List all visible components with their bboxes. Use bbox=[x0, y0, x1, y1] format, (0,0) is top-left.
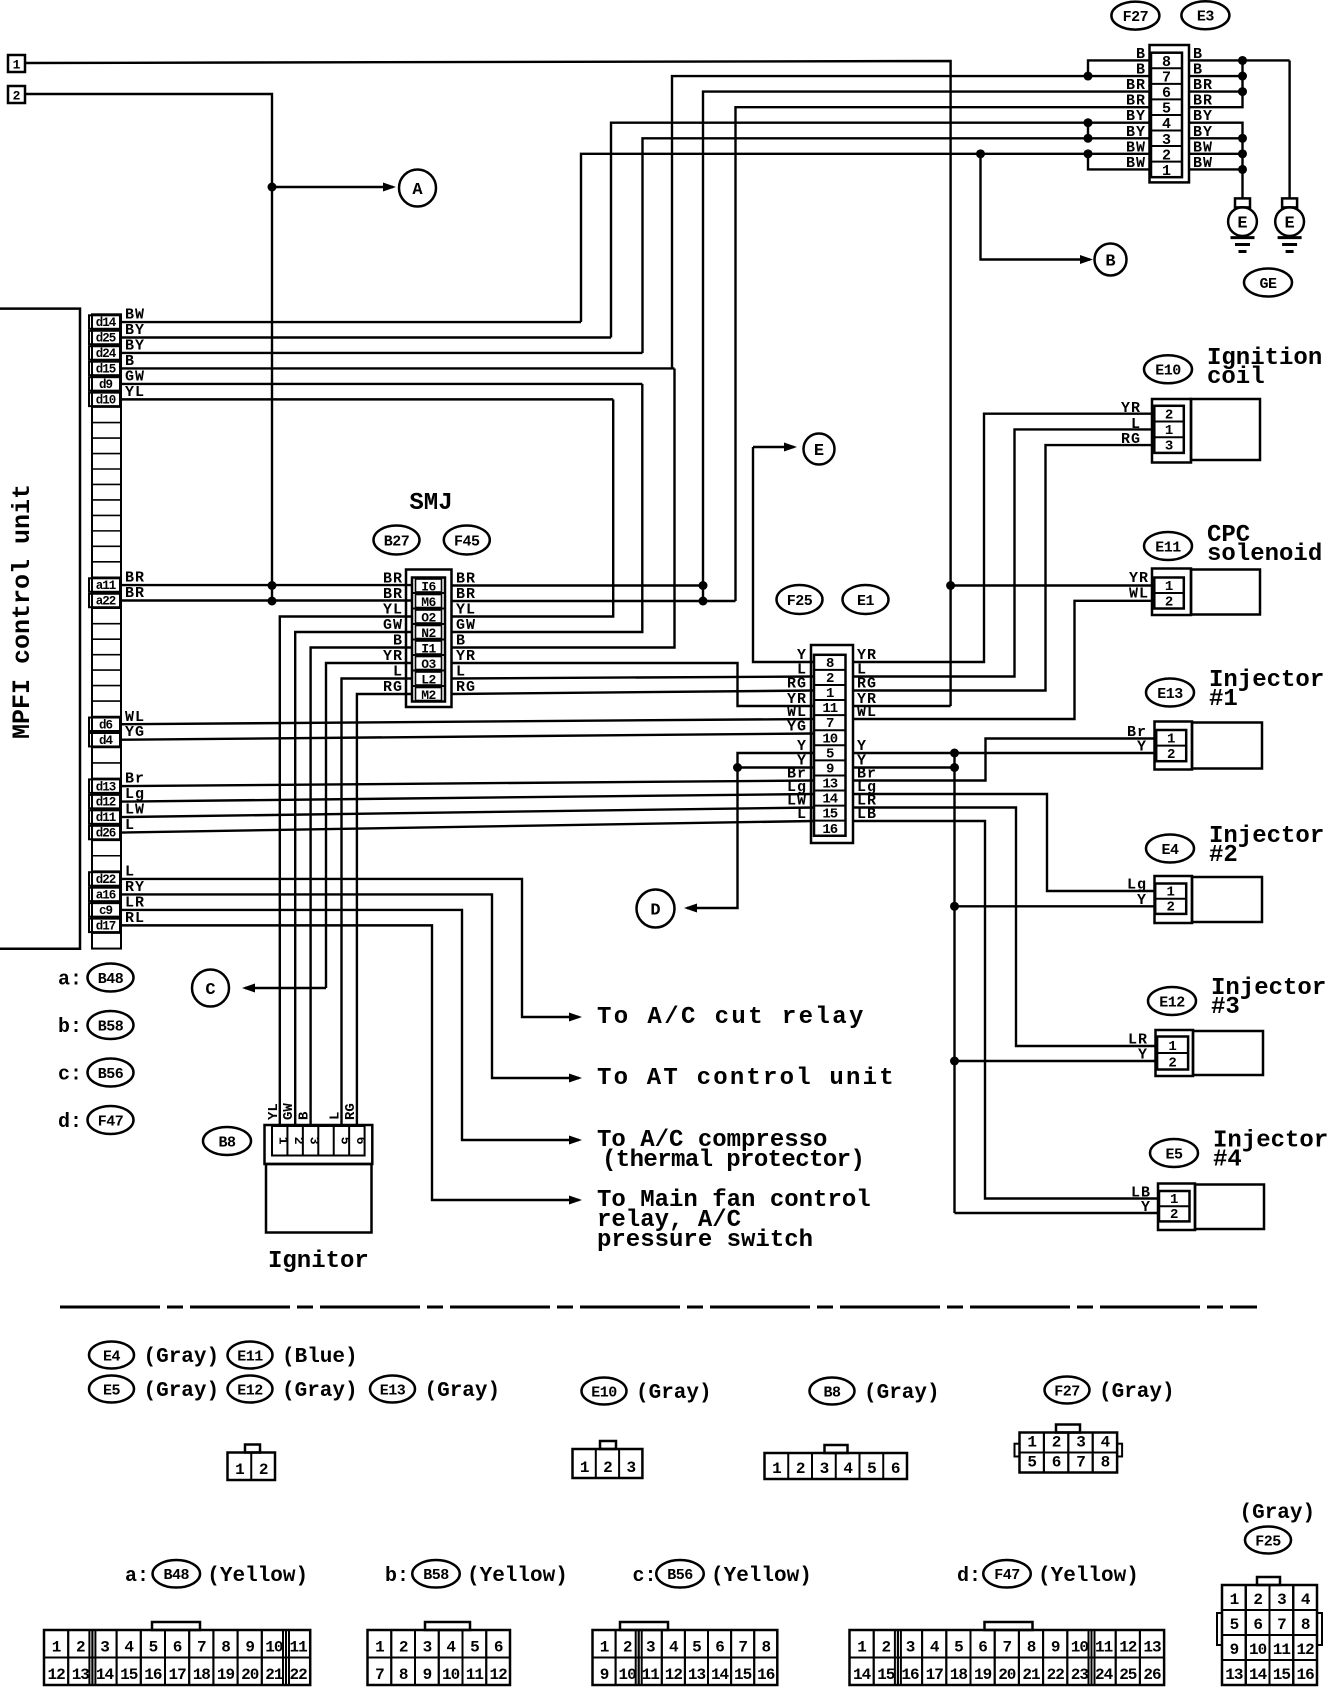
wire to ground E right bbox=[1288, 60, 1290, 198]
svg-text:3: 3 bbox=[100, 1639, 109, 1657]
wire d17 to Main fan control relay bbox=[121, 925, 579, 1200]
legend E13 Gray bbox=[370, 1376, 415, 1403]
svg-text:17: 17 bbox=[926, 1666, 944, 1684]
circle B58 bottom bbox=[412, 1560, 460, 1588]
circle GE bbox=[1244, 269, 1292, 297]
svg-text:d14: d14 bbox=[96, 316, 117, 330]
junction dot Y injector3 bbox=[950, 1057, 959, 1066]
svg-text:c9: c9 bbox=[99, 904, 113, 918]
svg-text:2: 2 bbox=[603, 1459, 612, 1477]
connector diagram 3-pin bbox=[600, 1441, 616, 1449]
wire GW SMJ to ignitor pin2 bbox=[295, 632, 412, 1126]
svg-text:(Gray): (Gray) bbox=[282, 1380, 358, 1403]
junction dot BY pin3 bbox=[1084, 134, 1093, 143]
wire YR SMJ right to E1 pin11 bbox=[452, 663, 815, 706]
svg-text:E: E bbox=[1237, 215, 1247, 234]
svg-text:(thermal protector): (thermal protector) bbox=[602, 1147, 864, 1174]
svg-text:8: 8 bbox=[399, 1666, 408, 1684]
svg-text:2: 2 bbox=[76, 1639, 85, 1657]
svg-text:2: 2 bbox=[1167, 747, 1175, 763]
svg-text:16: 16 bbox=[822, 822, 837, 838]
svg-text:3: 3 bbox=[906, 1639, 915, 1657]
junction dot BR a22 bbox=[699, 597, 708, 606]
connector F27/E3 outer shell bbox=[1150, 45, 1190, 182]
circle B56 bottom bbox=[656, 1560, 704, 1588]
svg-text:B56: B56 bbox=[98, 1066, 124, 1083]
node 1 box bbox=[8, 55, 25, 72]
wire 2 from node2 bbox=[25, 94, 272, 601]
junction dot B-arrow branch bbox=[976, 149, 985, 158]
svg-text:17: 17 bbox=[168, 1666, 186, 1684]
svg-text:15: 15 bbox=[734, 1666, 752, 1684]
svg-text:13: 13 bbox=[1143, 1639, 1161, 1657]
svg-text:c:: c: bbox=[58, 1064, 82, 1087]
svg-text:D: D bbox=[650, 902, 660, 921]
junction dot wire2 branch A bbox=[268, 183, 277, 192]
svg-text:5: 5 bbox=[867, 1460, 876, 1478]
svg-text:9: 9 bbox=[245, 1639, 254, 1657]
svg-text:15: 15 bbox=[1273, 1666, 1291, 1684]
wire Y to injector3 bbox=[955, 1060, 1158, 1062]
svg-text:12: 12 bbox=[1297, 1641, 1315, 1659]
wire L SMJ to ignitor pin5 bbox=[342, 679, 413, 1127]
svg-text:To A/C cut relay: To A/C cut relay bbox=[597, 1004, 866, 1031]
svg-text:10: 10 bbox=[265, 1639, 283, 1657]
wire a16 to AT control unit bbox=[121, 894, 579, 1078]
wire B d15 row bbox=[121, 367, 675, 369]
svg-text:a22: a22 bbox=[96, 595, 116, 609]
svg-text:B48: B48 bbox=[164, 1567, 190, 1584]
wire F27 pin8 B stub bbox=[1088, 60, 1151, 76]
junction dot right BW pin1 bbox=[1238, 165, 1247, 174]
svg-text:pressure switch: pressure switch bbox=[597, 1227, 813, 1254]
svg-text:d:: d: bbox=[957, 1565, 981, 1588]
circle B8 bbox=[203, 1127, 251, 1155]
circle E12 bbox=[1148, 987, 1196, 1015]
connector E13 pin box bbox=[1156, 730, 1186, 761]
svg-text:11: 11 bbox=[289, 1639, 307, 1657]
wire arrow to E bbox=[753, 446, 794, 448]
svg-text:4: 4 bbox=[1101, 1434, 1111, 1452]
wire d22 to A/C cut relay bbox=[121, 879, 579, 1017]
svg-text:9: 9 bbox=[1230, 1641, 1239, 1659]
svg-text:2: 2 bbox=[399, 1639, 408, 1657]
svg-text:3: 3 bbox=[307, 1137, 322, 1145]
svg-text:9: 9 bbox=[1051, 1639, 1060, 1657]
wire F27 pin3 BY right bbox=[1189, 137, 1243, 139]
svg-text:2: 2 bbox=[1253, 1591, 1262, 1609]
svg-text:5: 5 bbox=[1230, 1616, 1239, 1634]
wire 1 B+ from node1 bbox=[25, 61, 951, 586]
wire LW d11 to E1 pin15 bbox=[121, 808, 814, 818]
svg-text:F27: F27 bbox=[1054, 1383, 1080, 1400]
wire F27 pin2 BW right bbox=[1189, 153, 1243, 155]
wire F27 pin5 BR right up bbox=[1189, 60, 1243, 107]
connector diagram B56 16-pin bbox=[620, 1622, 668, 1630]
svg-text:14: 14 bbox=[1249, 1666, 1268, 1684]
svg-text:20: 20 bbox=[241, 1666, 259, 1684]
connector diagram 6-pin bbox=[825, 1445, 848, 1453]
circle E3 bbox=[1181, 1, 1229, 29]
svg-text:YL: YL bbox=[266, 1103, 282, 1120]
svg-text:2: 2 bbox=[881, 1639, 890, 1657]
junction dot BR a11 bbox=[699, 581, 708, 590]
wire LB E1 pin16 to injector4 pin1 bbox=[853, 821, 1159, 1199]
svg-text:3: 3 bbox=[1076, 1434, 1085, 1452]
wire arrow to C bbox=[245, 987, 326, 989]
wire BY F27 pin3 to d24 bbox=[643, 138, 1152, 353]
svg-text:4: 4 bbox=[1301, 1591, 1311, 1609]
wire F27 pin4 BY right down bbox=[1189, 123, 1243, 199]
wire B SMJ right to d15 bbox=[452, 368, 675, 647]
wire WL d6 to E1 pin7 bbox=[121, 719, 814, 724]
wire BR SMJ right a22 junction bbox=[452, 600, 736, 602]
junction dot BY pin4 bbox=[1084, 118, 1093, 127]
connector diagram 2-pin bbox=[245, 1445, 260, 1453]
svg-text:6: 6 bbox=[353, 1137, 368, 1145]
svg-text:2: 2 bbox=[623, 1639, 632, 1657]
connector diagram B58 12-pin bbox=[425, 1622, 470, 1630]
svg-text:F27: F27 bbox=[1123, 9, 1149, 26]
junction dot wire2 a11 bbox=[268, 581, 277, 590]
svg-text:(Gray): (Gray) bbox=[636, 1382, 712, 1405]
svg-text:(Gray): (Gray) bbox=[864, 1382, 940, 1405]
wire Br d13 to E1 pin13 bbox=[121, 781, 814, 787]
svg-text:11: 11 bbox=[1095, 1639, 1113, 1657]
svg-text:5: 5 bbox=[692, 1639, 701, 1657]
svg-text:6: 6 bbox=[1052, 1454, 1061, 1472]
wire YL SMJ right to d10 bbox=[452, 399, 614, 616]
connector E10 outer shell bbox=[1152, 399, 1191, 463]
svg-text:GW: GW bbox=[281, 1103, 297, 1120]
connector E1/F25 outer shell bbox=[811, 645, 853, 843]
wire BW F27 pin2 to d14 bbox=[581, 154, 1151, 322]
svg-text:A: A bbox=[412, 181, 423, 200]
wire BW joint pins1-2 bbox=[1088, 154, 1151, 170]
svg-text:1: 1 bbox=[772, 1460, 781, 1478]
svg-text:7: 7 bbox=[738, 1639, 747, 1657]
svg-text:11: 11 bbox=[1273, 1641, 1291, 1659]
junction dot Y injector2 bbox=[950, 902, 959, 911]
svg-text:6: 6 bbox=[173, 1639, 182, 1657]
svg-text:E: E bbox=[814, 442, 824, 461]
wire BR a22 to SMJ bbox=[121, 599, 412, 601]
wire F27 pin1 BW right bbox=[1189, 168, 1243, 170]
svg-text:5: 5 bbox=[470, 1639, 479, 1657]
svg-text:5: 5 bbox=[1027, 1454, 1036, 1472]
svg-text:8: 8 bbox=[1301, 1616, 1310, 1634]
svg-text:11: 11 bbox=[642, 1666, 660, 1684]
svg-text:7: 7 bbox=[197, 1639, 206, 1657]
connector E1/F25 pin box bbox=[814, 655, 846, 836]
svg-text:24: 24 bbox=[1095, 1666, 1114, 1684]
svg-text:14: 14 bbox=[711, 1666, 730, 1684]
wire LR E1 pin15 to injector3 pin1 bbox=[853, 808, 1157, 1047]
legend E10 Gray bbox=[582, 1378, 627, 1405]
wire YR CPC branch bbox=[951, 584, 1155, 586]
wire L d26 to E1 pin16 bbox=[121, 821, 814, 833]
wire YL d10 row bbox=[121, 398, 613, 400]
wire BR a11 to SMJ bbox=[121, 584, 412, 586]
svg-text:6: 6 bbox=[978, 1639, 987, 1657]
circle F25 legend bbox=[1245, 1527, 1291, 1554]
connector diagram F25 16-pin bbox=[1257, 1577, 1280, 1585]
svg-text:d12: d12 bbox=[96, 796, 116, 810]
svg-text:7: 7 bbox=[1076, 1454, 1085, 1472]
svg-text:4: 4 bbox=[843, 1460, 853, 1478]
ignitor outer shell bbox=[265, 1125, 373, 1164]
svg-text:(Gray): (Gray) bbox=[144, 1380, 220, 1403]
wire c9 to A/C compresso bbox=[121, 910, 579, 1140]
svg-text:4: 4 bbox=[669, 1639, 679, 1657]
svg-text:26: 26 bbox=[1143, 1666, 1161, 1684]
connector E4 body bbox=[1192, 877, 1262, 922]
wire BR junction tie bbox=[702, 586, 704, 602]
svg-text:C: C bbox=[205, 981, 215, 1000]
wire Y E1 pin5 to injector1 pin2 bbox=[853, 752, 1156, 754]
svg-text:MPFI control unit: MPFI control unit bbox=[8, 484, 37, 739]
svg-text:coil: coil bbox=[1207, 364, 1265, 391]
svg-text:22: 22 bbox=[289, 1666, 307, 1684]
svg-text:2: 2 bbox=[1162, 147, 1171, 164]
wire d24 BY row bbox=[121, 352, 643, 354]
svg-text:20: 20 bbox=[998, 1666, 1016, 1684]
svg-text:15: 15 bbox=[120, 1666, 138, 1684]
connector E11 pin box bbox=[1154, 578, 1184, 609]
svg-text:1: 1 bbox=[235, 1461, 244, 1479]
svg-text:a:: a: bbox=[58, 969, 82, 992]
junction dot BW pin2 bbox=[1084, 149, 1093, 158]
svg-text:d24: d24 bbox=[96, 347, 117, 361]
connector E10 pin box bbox=[1154, 406, 1184, 453]
svg-text:3: 3 bbox=[820, 1460, 829, 1478]
circle C bbox=[192, 970, 229, 1007]
wire Lg d12 to E1 pin14 bbox=[121, 794, 814, 802]
wire Y E1 pin9 right bbox=[853, 766, 955, 768]
svg-text:B48: B48 bbox=[98, 971, 124, 988]
svg-text:E11: E11 bbox=[237, 1348, 263, 1365]
svg-text:11: 11 bbox=[466, 1666, 484, 1684]
ignitor pin box bbox=[272, 1126, 365, 1156]
svg-text:1: 1 bbox=[1230, 1591, 1239, 1609]
svg-text:RG: RG bbox=[787, 676, 807, 693]
svg-text:2: 2 bbox=[1170, 1207, 1178, 1223]
svg-text:2: 2 bbox=[13, 89, 21, 104]
ignitor body bbox=[266, 1164, 372, 1233]
circle E10 bbox=[1144, 355, 1192, 383]
svg-text:#3: #3 bbox=[1211, 994, 1240, 1021]
connector E5 pin box bbox=[1159, 1191, 1190, 1221]
svg-text:1: 1 bbox=[13, 58, 21, 73]
wire YL SMJ to ignitor pin1 bbox=[280, 617, 412, 1127]
svg-text:7: 7 bbox=[1002, 1639, 1011, 1657]
svg-text:1: 1 bbox=[1027, 1434, 1036, 1452]
wire arrow to B bbox=[981, 154, 1091, 260]
wire Y E1 pin8 to node E bbox=[753, 447, 814, 662]
svg-text:14: 14 bbox=[96, 1666, 115, 1684]
svg-text:B58: B58 bbox=[98, 1018, 124, 1035]
connector E10 body bbox=[1191, 399, 1260, 460]
junction dot D-net Y bbox=[733, 763, 742, 772]
legend E12 Gray bbox=[228, 1376, 273, 1403]
svg-text:16: 16 bbox=[901, 1666, 919, 1684]
svg-text:6: 6 bbox=[715, 1639, 724, 1657]
junction dot YR CPC bbox=[946, 581, 955, 590]
svg-text:(Gray): (Gray) bbox=[425, 1380, 501, 1403]
svg-text:#1: #1 bbox=[1209, 686, 1238, 713]
svg-text:8: 8 bbox=[1101, 1454, 1110, 1472]
svg-text:3: 3 bbox=[626, 1459, 635, 1477]
svg-text:c:: c: bbox=[633, 1565, 657, 1588]
separator dashed line bbox=[60, 1306, 1257, 1309]
svg-text:SMJ: SMJ bbox=[409, 490, 452, 517]
legend E5 Gray bbox=[89, 1376, 134, 1403]
svg-text:E5: E5 bbox=[103, 1382, 121, 1399]
connector SMJ pin box bbox=[412, 578, 445, 702]
circle F25 bbox=[777, 585, 823, 614]
svg-text:21: 21 bbox=[265, 1666, 283, 1684]
svg-text:6: 6 bbox=[1162, 85, 1171, 102]
svg-text:d15: d15 bbox=[96, 363, 116, 377]
svg-text:2: 2 bbox=[1166, 900, 1174, 916]
svg-text:a16: a16 bbox=[96, 889, 116, 903]
svg-text:2: 2 bbox=[1168, 1055, 1176, 1071]
svg-text:7: 7 bbox=[375, 1666, 384, 1684]
svg-text:E5: E5 bbox=[1165, 1146, 1183, 1163]
svg-text:B56: B56 bbox=[667, 1567, 693, 1584]
circle F47 bottom bbox=[983, 1560, 1031, 1588]
svg-text:10: 10 bbox=[1071, 1639, 1089, 1657]
svg-text:#4: #4 bbox=[1213, 1147, 1242, 1174]
junction dot Y chain top bbox=[950, 749, 959, 758]
svg-text:9: 9 bbox=[423, 1666, 432, 1684]
svg-text:1: 1 bbox=[375, 1639, 384, 1657]
svg-text:12: 12 bbox=[47, 1666, 65, 1684]
svg-text:E13: E13 bbox=[380, 1382, 406, 1399]
svg-text:2: 2 bbox=[796, 1460, 805, 1478]
svg-text:2: 2 bbox=[1165, 594, 1173, 610]
legend E11 Blue bbox=[228, 1342, 273, 1369]
svg-text:5: 5 bbox=[337, 1137, 352, 1145]
svg-text:19: 19 bbox=[217, 1666, 235, 1684]
svg-text:b:: b: bbox=[58, 1016, 82, 1039]
svg-text:4: 4 bbox=[446, 1639, 456, 1657]
svg-text:a:: a: bbox=[125, 1565, 149, 1588]
circle E13 bbox=[1146, 679, 1194, 707]
wire Y to injector2 bbox=[955, 905, 1156, 907]
svg-text:d10: d10 bbox=[96, 394, 116, 408]
circle F47 bbox=[88, 1106, 134, 1134]
junction dot Y chain 2 bbox=[950, 763, 959, 772]
circle D bbox=[637, 890, 675, 928]
wire BY F27 pin4 to d25 bbox=[611, 123, 1151, 338]
connector E11 outer shell bbox=[1152, 569, 1191, 616]
svg-text:21: 21 bbox=[1022, 1666, 1040, 1684]
svg-text:16: 16 bbox=[757, 1666, 775, 1684]
wire RG SMJ to ignitor pin6 bbox=[357, 694, 412, 1126]
svg-text:B: B bbox=[297, 1111, 313, 1120]
svg-text:F47: F47 bbox=[98, 1113, 124, 1130]
svg-text:23: 23 bbox=[1071, 1666, 1089, 1684]
svg-text:E3: E3 bbox=[1197, 9, 1215, 26]
circle A bbox=[399, 170, 436, 207]
svg-text:(Yellow): (Yellow) bbox=[711, 1565, 812, 1588]
svg-text:16: 16 bbox=[1297, 1666, 1315, 1684]
wire YR down to E1 pin11 bbox=[949, 586, 951, 707]
svg-text:8: 8 bbox=[1162, 54, 1171, 71]
junction dot right BY pin3 bbox=[1238, 134, 1247, 143]
svg-text:E12: E12 bbox=[237, 1382, 263, 1399]
svg-text:12: 12 bbox=[490, 1666, 508, 1684]
svg-text:M2: M2 bbox=[421, 688, 436, 703]
svg-text:13: 13 bbox=[1225, 1666, 1243, 1684]
svg-text:13: 13 bbox=[688, 1666, 706, 1684]
connector E4 pin box bbox=[1155, 884, 1186, 914]
svg-text:E12: E12 bbox=[1159, 994, 1185, 1011]
connector E5 outer shell bbox=[1158, 1184, 1195, 1231]
svg-text:4: 4 bbox=[930, 1639, 940, 1657]
svg-text:(Gray): (Gray) bbox=[1099, 1381, 1175, 1404]
svg-text:1: 1 bbox=[52, 1639, 61, 1657]
svg-text:F45: F45 bbox=[454, 533, 480, 550]
connector diagram F27 8-pin bbox=[1056, 1425, 1080, 1433]
svg-text:(Yellow): (Yellow) bbox=[207, 1565, 308, 1588]
MPFI control unit outline bbox=[0, 309, 80, 949]
junction dot right BR pin6 bbox=[1238, 87, 1247, 96]
svg-text:E10: E10 bbox=[1155, 363, 1181, 380]
connector E4 outer shell bbox=[1155, 876, 1193, 923]
svg-text:2: 2 bbox=[291, 1137, 306, 1145]
circle F27 bbox=[1111, 2, 1159, 30]
svg-text:(Gray): (Gray) bbox=[144, 1346, 220, 1369]
circle E bbox=[804, 434, 835, 465]
wire L SMJ right to E1 pin2 bbox=[452, 677, 815, 679]
svg-text:To AT control unit: To AT control unit bbox=[597, 1065, 896, 1092]
wire YR E1 pin11 right stub bbox=[853, 705, 951, 707]
connector E12 pin box bbox=[1157, 1037, 1188, 1070]
svg-text:(Blue): (Blue) bbox=[282, 1346, 358, 1369]
svg-text:6: 6 bbox=[891, 1460, 900, 1478]
connector SMJ outer shell bbox=[406, 570, 452, 708]
connector diagram B48 22-pin bbox=[152, 1622, 200, 1630]
wire Lg E1 pin14 to injector2 pin1 bbox=[853, 794, 1155, 891]
svg-text:Ignitor: Ignitor bbox=[268, 1248, 369, 1275]
connector E12 body bbox=[1193, 1031, 1263, 1075]
svg-text:3: 3 bbox=[1162, 132, 1171, 149]
svg-text:3: 3 bbox=[423, 1639, 432, 1657]
circle F45 bbox=[444, 526, 490, 555]
wire BR F27 pin6 to SMJ bbox=[703, 92, 1151, 586]
svg-text:1: 1 bbox=[600, 1639, 609, 1657]
svg-text:d25: d25 bbox=[96, 332, 116, 346]
junction dot right BW pin2 bbox=[1238, 149, 1247, 158]
wire RG E1 pin1 to ignition coil pin3 bbox=[853, 445, 1154, 690]
svg-text:4: 4 bbox=[1162, 116, 1171, 133]
svg-text:d13: d13 bbox=[96, 780, 116, 794]
connector E11 body bbox=[1191, 570, 1260, 615]
svg-text:a11: a11 bbox=[96, 579, 116, 593]
svg-text:L: L bbox=[328, 1112, 344, 1120]
svg-text:E4: E4 bbox=[1161, 842, 1179, 859]
svg-text:6: 6 bbox=[494, 1639, 503, 1657]
legend E4 Gray bbox=[89, 1342, 134, 1369]
svg-text:22: 22 bbox=[1047, 1666, 1065, 1684]
wire F27 pin8 B right bbox=[1189, 59, 1290, 61]
svg-text:B: B bbox=[1105, 253, 1115, 272]
svg-text:5: 5 bbox=[1162, 101, 1171, 118]
svg-text:E: E bbox=[1284, 215, 1294, 234]
svg-text:8: 8 bbox=[761, 1639, 770, 1657]
